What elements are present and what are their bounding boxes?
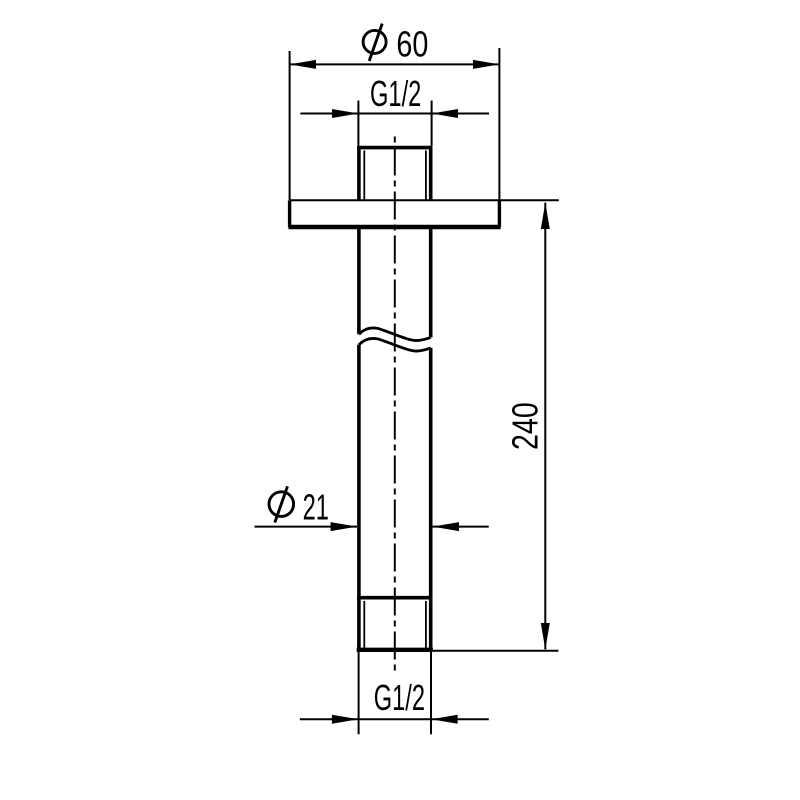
arrowhead top G1/2 right [432, 109, 458, 118]
arrowhead bottom G1/2 left [332, 715, 358, 724]
extension line left for dia60 [289, 51, 291, 200]
arrowhead 240 bottom [541, 623, 550, 649]
top thread root line right [425, 151, 427, 200]
svg-text:60: 60 [396, 24, 428, 65]
tube lower section right edge [429, 348, 433, 648]
dia21 dimension line right segment [433, 526, 489, 528]
dimension line top G1/2 [300, 113, 489, 115]
top nipple right side [429, 148, 433, 200]
extension line bottom right for G1/2 [430, 652, 432, 734]
top thread root line left [363, 151, 365, 200]
arrowhead dia21 right [433, 522, 459, 531]
arrowhead top G1/2 left [332, 109, 358, 118]
extension line bottom left for G1/2 [358, 652, 360, 734]
tube bottom edge [357, 648, 433, 652]
extension line right for dia60 [498, 48, 500, 200]
bottom thread root line right [425, 601, 427, 648]
bottom thread top edge [357, 596, 432, 600]
svg-text:21: 21 [303, 487, 329, 528]
tube upper section right edge [429, 228, 433, 337]
svg-text:G1/2: G1/2 [370, 73, 421, 114]
bottom thread root line left [363, 601, 365, 648]
dimension line dia60 [290, 63, 500, 65]
extension line right for top G1/2 [431, 101, 433, 147]
flange right side [498, 200, 501, 227]
flange bottom edge [288, 225, 500, 229]
dimension line bottom G1/2 [300, 718, 489, 720]
top nipple top edge [357, 146, 432, 150]
arrowhead bottom G1/2 right [431, 715, 457, 724]
arrowhead dia21 left [331, 522, 357, 531]
break wave lower [359, 338, 431, 351]
flange left side [288, 200, 291, 227]
centerline (dash-dot axis of arm) [394, 137, 396, 672]
svg-text:240: 240 [504, 402, 545, 450]
tube lower section left edge [357, 345, 361, 648]
dimension line 240 [544, 203, 546, 650]
arrowhead dia60 left [290, 60, 316, 69]
tube upper section left edge [357, 228, 361, 334]
dia21 dimension line left segment [255, 526, 358, 528]
flange top edge with extension toward 240 dimension [290, 199, 559, 201]
svg-text:G1/2: G1/2 [374, 677, 425, 718]
arrowhead 240 top [541, 203, 550, 229]
diameter symbol of dia21 label [269, 492, 294, 517]
top nipple left side [357, 148, 361, 200]
arrowhead dia60 right [473, 60, 499, 69]
diameter symbol of dia60 label [363, 30, 386, 53]
break wave upper [359, 328, 431, 341]
extension line left for top G1/2 [357, 101, 359, 147]
extension line right for 240 bottom [432, 650, 559, 652]
